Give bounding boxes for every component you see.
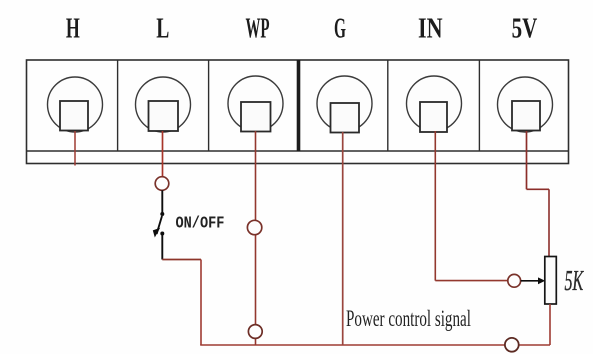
switch S1 top contact dot	[160, 212, 164, 216]
node circle on WP wire upper	[247, 220, 261, 234]
wire IN horizontal to wiper node	[435, 280, 508, 282]
svg-text:H: H	[66, 13, 80, 44]
switch S1 blade	[157, 216, 162, 234]
terminal 5V screw square	[512, 101, 540, 131]
wire from H terminal	[74, 131, 76, 166]
wire from G terminal down to bottom rail	[342, 132, 344, 345]
wire switch bottom contact down	[161, 234, 163, 260]
terminal G screw circle	[317, 76, 372, 131]
wire from IN terminal down	[434, 131, 436, 281]
wiper arrow line	[521, 280, 540, 282]
node circle at pot wiper	[508, 274, 521, 287]
terminal H screw square	[60, 101, 88, 131]
terminal IN screw circle	[407, 76, 462, 131]
svg-text:G: G	[334, 13, 346, 44]
terminal 5V screw circle	[498, 77, 553, 132]
svg-text:5K: 5K	[564, 265, 584, 297]
svg-text:ON/OFF: ON/OFF	[176, 213, 225, 233]
terminal H screw circle	[48, 77, 103, 132]
cell divider 2	[208, 60, 210, 151]
terminal L screw square	[149, 101, 179, 131]
cell divider 5	[478, 60, 480, 151]
terminal block outer body	[27, 60, 569, 164]
wiper arrowhead	[538, 277, 545, 284]
terminal WP screw square	[241, 102, 271, 132]
svg-text:5V: 5V	[512, 14, 538, 45]
wire switch elbow horizontal	[162, 259, 201, 261]
cell divider 1	[117, 60, 119, 151]
node circle on bottom rail	[505, 338, 519, 352]
svg-text:L: L	[156, 13, 169, 44]
wire pot bottom to rail	[549, 304, 551, 345]
node circle on WP wire lower	[248, 325, 262, 339]
terminal IN screw square	[420, 102, 447, 132]
wire down to pot top	[548, 189, 550, 256]
wire node to switch top contact	[161, 190, 163, 214]
terminal L screw circle	[136, 77, 191, 132]
wire switch branch down to bottom rail	[200, 260, 202, 346]
terminal G screw square	[331, 103, 360, 133]
wire from 5V terminal down	[526, 131, 528, 189]
cell divider 3 (thick joint)	[297, 60, 301, 151]
switch S1 bottom contact dot	[160, 232, 164, 236]
switch S1 blade arrowhead	[153, 228, 160, 238]
svg-text:IN: IN	[418, 14, 443, 44]
terminal WP screw circle	[228, 76, 283, 131]
svg-text:Power control signal: Power control signal	[346, 307, 471, 332]
wire from L terminal to node	[162, 131, 164, 177]
potentiometer 5K body	[545, 257, 557, 305]
node circle on L wire	[155, 177, 169, 191]
svg-text:WP: WP	[245, 12, 269, 43]
cell divider 4	[387, 60, 389, 151]
bottom rail wire	[200, 344, 550, 346]
wire 5V elbow horizontal	[527, 188, 550, 190]
wire from WP terminal down to bottom rail	[255, 131, 257, 345]
